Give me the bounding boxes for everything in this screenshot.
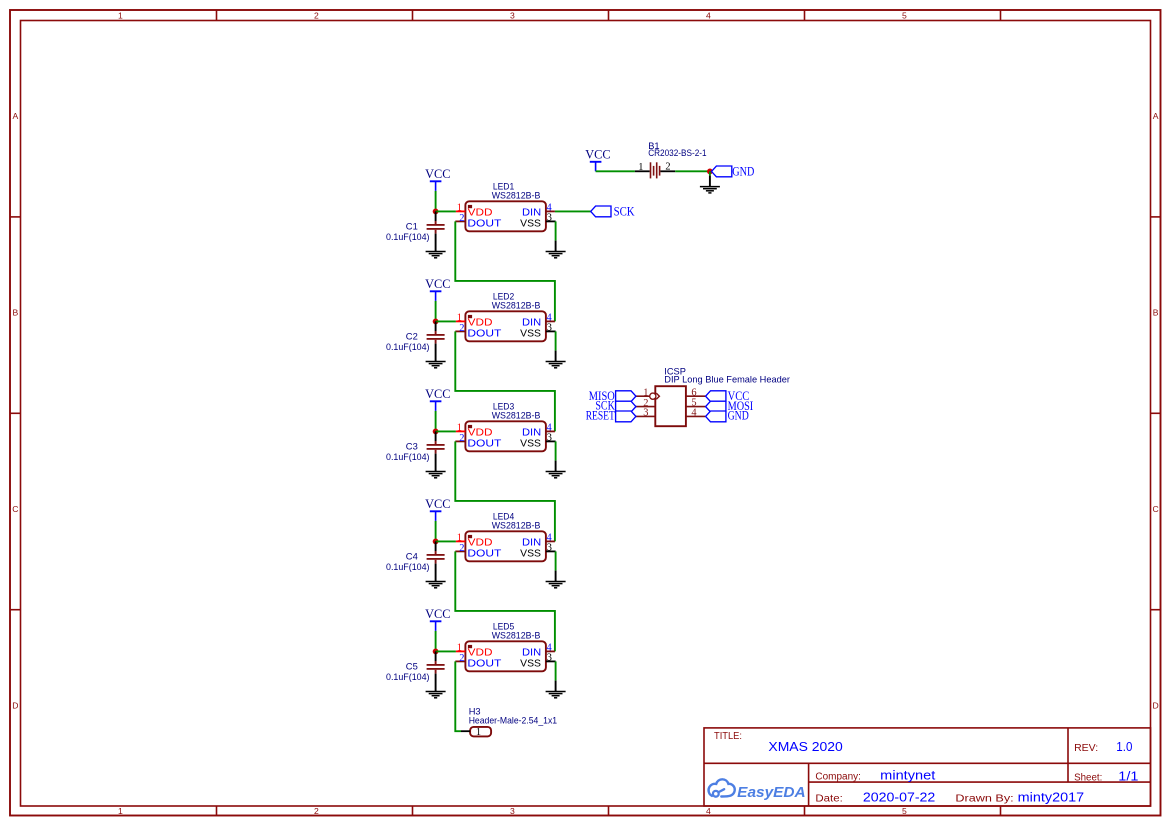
- ground: [426, 252, 446, 258]
- pin 5 of ICSP: [686, 398, 706, 409]
- wire: [555, 551, 557, 581]
- svg-text:4: 4: [706, 10, 711, 20]
- svg-text:DOUT: DOUT: [467, 438, 501, 449]
- svg-text:VSS: VSS: [520, 658, 541, 669]
- pin 4 DIN of LED5: [522, 642, 555, 658]
- svg-text:SCK: SCK: [614, 205, 635, 219]
- svg-text:1: 1: [457, 313, 462, 324]
- svg-text:VCC: VCC: [425, 606, 450, 621]
- net flag GND: [712, 164, 755, 178]
- svg-text:2: 2: [314, 806, 319, 816]
- svg-text:VCC: VCC: [425, 496, 450, 511]
- wire: [455, 661, 461, 731]
- svg-text:C: C: [1152, 504, 1158, 514]
- battery B1 CR2032-BS-2-1: [635, 141, 707, 178]
- svg-text:C5: C5: [406, 661, 418, 671]
- svg-text:WS2812B-B: WS2812B-B: [492, 191, 541, 201]
- svg-text:VDD: VDD: [468, 318, 493, 329]
- svg-text:3: 3: [510, 10, 515, 20]
- pin 4 DIN of LED2: [522, 312, 555, 328]
- net flag MISO: [589, 389, 636, 403]
- svg-text:2: 2: [459, 543, 464, 554]
- svg-text:VSS: VSS: [520, 328, 541, 339]
- svg-text:3: 3: [547, 653, 552, 664]
- svg-text:0.1uF(104): 0.1uF(104): [386, 562, 430, 572]
- net flag SCK: [591, 205, 635, 219]
- svg-text:DIN: DIN: [522, 648, 541, 659]
- svg-text:1.0: 1.0: [1116, 739, 1132, 754]
- svg-text:2: 2: [459, 213, 464, 224]
- power flag VCC (LED2 supply): [425, 276, 450, 301]
- svg-text:DOUT: DOUT: [467, 328, 501, 339]
- svg-text:0.1uF(104): 0.1uF(104): [386, 452, 430, 462]
- pin 1 VDD of LED4: [456, 533, 493, 549]
- svg-text:B: B: [1153, 308, 1159, 318]
- wire: [435, 521, 437, 542]
- connector H3 Header-Male-2.54_1x1: [469, 706, 557, 736]
- ground: [546, 252, 566, 258]
- svg-text:D: D: [12, 700, 18, 710]
- wire: [555, 210, 591, 212]
- wire: [455, 441, 555, 541]
- svg-text:5: 5: [902, 10, 907, 20]
- svg-text:GND: GND: [728, 408, 749, 422]
- net flag MOSI: [706, 399, 754, 413]
- pin 2 DOUT of LED5: [455, 653, 501, 669]
- svg-text:DIN: DIN: [522, 538, 541, 549]
- svg-text:VDD: VDD: [468, 648, 493, 659]
- pin 4 of ICSP: [686, 408, 706, 419]
- svg-text:B: B: [13, 308, 19, 318]
- svg-text:WS2812B-B: WS2812B-B: [492, 301, 541, 311]
- svg-text:DIN: DIN: [522, 428, 541, 439]
- pin 3 VSS of LED2: [520, 323, 555, 340]
- svg-text:3: 3: [547, 323, 552, 334]
- pin 3 VSS of LED1: [520, 213, 555, 230]
- svg-text:0.1uF(104): 0.1uF(104): [386, 232, 430, 242]
- pin 4 DIN of LED4: [522, 532, 555, 548]
- pin 1 VDD of LED5: [456, 643, 493, 659]
- capacitor C1 0.1uF(104): [386, 211, 445, 251]
- node VCC junction: [433, 539, 439, 545]
- svg-text:XMAS 2020: XMAS 2020: [768, 739, 842, 754]
- svg-text:1: 1: [457, 643, 462, 654]
- svg-text:A: A: [1153, 111, 1159, 121]
- wire: [709, 171, 711, 186]
- ground: [426, 472, 446, 478]
- svg-text:1: 1: [476, 727, 481, 738]
- ground: [546, 472, 566, 478]
- wire: [555, 331, 557, 361]
- IC LED1 WS2812B-B: [465, 181, 546, 231]
- svg-text:WS2812B-B: WS2812B-B: [492, 631, 541, 641]
- capacitor C4 0.1uF(104): [386, 541, 445, 581]
- svg-text:VDD: VDD: [468, 428, 493, 439]
- svg-text:VSS: VSS: [520, 438, 541, 449]
- wire: [555, 661, 557, 691]
- node GND junction: [707, 169, 713, 175]
- wire: [436, 650, 456, 652]
- pin 4 DIN of LED1: [522, 202, 555, 218]
- svg-text:1: 1: [118, 806, 123, 816]
- ground: [700, 187, 720, 193]
- wire: [436, 320, 456, 322]
- title block: [704, 728, 1151, 806]
- power flag VCC (LED5 supply): [425, 606, 450, 631]
- wire: [455, 221, 555, 321]
- svg-text:3: 3: [547, 213, 552, 224]
- svg-text:VSS: VSS: [520, 548, 541, 559]
- svg-text:DIN: DIN: [522, 208, 541, 219]
- ground: [426, 692, 446, 698]
- pin 1 VDD of LED3: [456, 423, 493, 439]
- wire: [435, 631, 437, 652]
- wire: [435, 301, 437, 322]
- wire: [436, 540, 456, 542]
- pin 1 VDD of LED2: [456, 313, 493, 329]
- svg-text:1: 1: [457, 423, 462, 434]
- svg-text:2: 2: [665, 162, 670, 173]
- ground: [546, 692, 566, 698]
- pin 4 DIN of LED3: [522, 422, 555, 438]
- wire: [455, 551, 555, 651]
- wire: [596, 170, 635, 172]
- svg-text:Header-Male-2.54_1x1: Header-Male-2.54_1x1: [469, 715, 557, 725]
- wire: [455, 331, 555, 431]
- ground: [426, 582, 446, 588]
- node VCC junction: [433, 319, 439, 325]
- ground: [426, 362, 446, 368]
- svg-text:C: C: [12, 504, 18, 514]
- svg-text:mintynet: mintynet: [880, 768, 936, 783]
- svg-text:EasyEDA: EasyEDA: [737, 784, 806, 801]
- svg-text:GND: GND: [732, 164, 754, 178]
- node VCC junction: [433, 649, 439, 655]
- pin 6 of ICSP: [686, 388, 706, 399]
- svg-text:Company:: Company:: [815, 772, 861, 783]
- svg-text:0.1uF(104): 0.1uF(104): [386, 342, 430, 352]
- svg-text:VCC: VCC: [425, 386, 450, 401]
- svg-text:0.1uF(104): 0.1uF(104): [386, 672, 430, 682]
- svg-text:D: D: [1152, 700, 1158, 710]
- svg-text:3: 3: [547, 543, 552, 554]
- svg-text:C3: C3: [406, 441, 418, 451]
- pin 2 DOUT of LED3: [455, 433, 501, 449]
- svg-text:1: 1: [638, 162, 643, 173]
- node VCC junction: [433, 209, 439, 215]
- IC LED5 WS2812B-B: [465, 621, 546, 671]
- pin 2 DOUT of LED4: [455, 543, 501, 559]
- svg-text:REV:: REV:: [1074, 743, 1098, 754]
- svg-text:1: 1: [118, 10, 123, 20]
- svg-text:VCC: VCC: [425, 276, 450, 291]
- svg-text:2: 2: [314, 10, 319, 20]
- svg-text:DOUT: DOUT: [467, 658, 501, 669]
- svg-text:C2: C2: [406, 331, 418, 341]
- IC LED4 WS2812B-B: [465, 511, 546, 561]
- ground: [546, 582, 566, 588]
- svg-text:VCC: VCC: [425, 166, 450, 181]
- svg-text:VCC: VCC: [585, 147, 610, 162]
- wire: [555, 441, 557, 471]
- net flag GND: [706, 408, 749, 422]
- IC LED2 WS2812B-B: [465, 291, 546, 341]
- EasyEDA logo: [709, 779, 806, 801]
- pin 1 of H3: [461, 727, 481, 738]
- svg-text:TITLE:: TITLE:: [714, 731, 742, 742]
- svg-text:3: 3: [643, 408, 648, 419]
- svg-text:C4: C4: [406, 551, 418, 561]
- svg-text:WS2812B-B: WS2812B-B: [492, 411, 541, 421]
- net flag VCC: [706, 389, 750, 403]
- svg-text:1: 1: [643, 388, 648, 399]
- pin 3 VSS of LED4: [520, 543, 555, 560]
- pin 3 VSS of LED3: [520, 433, 555, 450]
- connector ICSP DIP Long Blue Female Header: [655, 367, 790, 427]
- svg-text:DOUT: DOUT: [467, 548, 501, 559]
- svg-text:Drawn By:: Drawn By:: [955, 794, 1013, 805]
- svg-text:WS2812B-B: WS2812B-B: [492, 521, 541, 531]
- pin 3 VSS of LED5: [520, 653, 555, 670]
- svg-text:5: 5: [902, 806, 907, 816]
- wire: [436, 210, 456, 212]
- net flag RESET: [586, 408, 636, 422]
- svg-text:CR2032-BS-2-1: CR2032-BS-2-1: [648, 148, 706, 158]
- wire: [555, 221, 557, 251]
- svg-text:A: A: [13, 111, 19, 121]
- pin 2 DOUT of LED1: [455, 213, 501, 229]
- svg-text:2: 2: [459, 433, 464, 444]
- svg-text:1/1: 1/1: [1118, 769, 1138, 784]
- svg-text:Sheet:: Sheet:: [1074, 773, 1102, 784]
- svg-text:minty2017: minty2017: [1018, 790, 1084, 805]
- pin 2 DOUT of LED2: [455, 323, 501, 339]
- svg-text:2: 2: [459, 653, 464, 664]
- pin 1 of ICSP: [635, 388, 659, 400]
- wire: [435, 191, 437, 212]
- power flag VCC (LED3 supply): [425, 386, 450, 411]
- wire: [435, 411, 437, 432]
- power flag VCC (battery): [585, 147, 610, 172]
- capacitor C2 0.1uF(104): [386, 321, 445, 361]
- svg-text:4: 4: [691, 408, 697, 419]
- node VCC junction: [433, 429, 439, 435]
- pin 1 VDD of LED1: [456, 203, 493, 219]
- svg-text:DOUT: DOUT: [467, 218, 501, 229]
- wire: [675, 170, 710, 172]
- svg-text:C1: C1: [406, 221, 418, 231]
- svg-text:3: 3: [547, 433, 552, 444]
- svg-text:4: 4: [706, 806, 711, 816]
- IC LED3 WS2812B-B: [465, 401, 546, 451]
- svg-text:1: 1: [457, 203, 462, 214]
- svg-text:3: 3: [510, 806, 515, 816]
- svg-text:VDD: VDD: [468, 208, 493, 219]
- power flag VCC (LED1 supply): [425, 166, 450, 191]
- svg-text:1: 1: [457, 533, 462, 544]
- svg-text:Date:: Date:: [815, 794, 842, 805]
- pin 2 of ICSP: [635, 398, 655, 409]
- svg-text:VSS: VSS: [520, 218, 541, 229]
- svg-text:DIN: DIN: [522, 318, 541, 329]
- svg-text:DIP Long Blue Female Header: DIP Long Blue Female Header: [664, 375, 790, 385]
- capacitor C5 0.1uF(104): [386, 651, 445, 691]
- net flag SCK: [595, 399, 636, 413]
- wire: [436, 430, 456, 432]
- pin 3 of ICSP: [635, 408, 655, 419]
- svg-text:2: 2: [459, 323, 464, 334]
- power flag VCC (LED4 supply): [425, 496, 450, 521]
- svg-text:VDD: VDD: [468, 538, 493, 549]
- svg-text:2020-07-22: 2020-07-22: [863, 790, 935, 805]
- svg-text:RESET: RESET: [586, 408, 615, 422]
- capacitor C3 0.1uF(104): [386, 431, 445, 471]
- ground: [546, 362, 566, 368]
